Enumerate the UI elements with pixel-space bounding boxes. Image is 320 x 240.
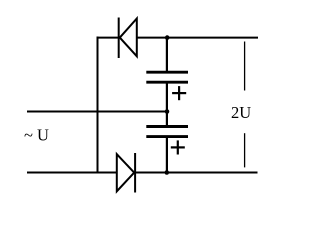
output voltage indicator lower segment — [244, 133, 246, 167]
svg-text:2U: 2U — [231, 103, 251, 122]
node: top junction dot — [165, 35, 170, 40]
polarity + of C1 — [172, 86, 186, 100]
diode D1 (cathode bar, pointing left) — [119, 18, 137, 59]
wire: middle input wire (~U top terminal) — [27, 111, 167, 113]
wire: top rail right segment (D1 to right end) — [137, 37, 258, 39]
wire: bottom input wire (left of D2) — [27, 172, 117, 174]
svg-text:~ U: ~ U — [24, 126, 49, 145]
capacitor C2 (polarized, bottom) — [146, 127, 188, 137]
polarity + of C2 — [171, 140, 185, 154]
wire: top rail left segment (corner to D1 cathode bar) — [97, 37, 119, 39]
wire: bottom rail right segment (D2 to right end) — [135, 172, 257, 174]
output voltage indicator upper segment — [244, 42, 246, 91]
capacitor C1 (polarized, top) — [146, 72, 188, 82]
node: bottom junction dot — [165, 170, 170, 175]
wire: lead from top junction down to C1 top plate — [166, 38, 168, 72]
wire: lead from C2 bottom plate to bottom junction — [166, 137, 168, 173]
wire: lead from C1 bottom plate to middle junction — [166, 83, 168, 127]
wire: left vertical link from top diode anode wire down to bottom input wire — [97, 37, 99, 174]
diode D2 (pointing right, cathode bar at right) — [117, 153, 135, 193]
node: middle junction dot — [165, 109, 170, 114]
